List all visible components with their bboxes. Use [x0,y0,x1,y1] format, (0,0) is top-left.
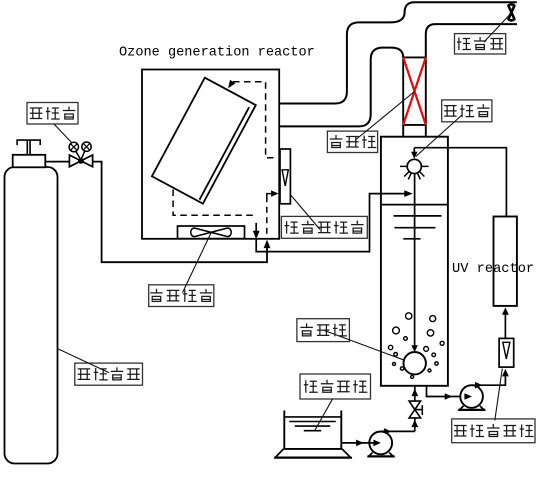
water surface lines [381,204,448,206]
water distributor feed with down arrow [413,148,415,152]
leader line 染料废水 [315,399,333,430]
label box 减压阀 (pressure reducing valve) [27,103,78,125]
leader line 减压阀 [54,124,72,143]
leader line 活性炭 [356,92,415,140]
cylinder valve stem [27,140,30,155]
arrow ozone out of box [253,231,260,240]
pipe: cylinder neck to valve [45,161,70,163]
UV reactor body [494,217,517,306]
arrow ozone into column [404,190,413,197]
tank base [276,449,351,457]
oxygen to rotameter arrow [267,194,273,198]
arrow pump2 outlet [475,382,483,389]
rotameter (ozone) body [280,149,290,204]
svg-text:UV reactor: UV reactor [452,262,534,277]
label box 转子流量计 lower (rotameter) [452,419,535,443]
label box 活性炭 (activated carbon) [327,131,377,152]
label box 氧气钢瓶 (oxygen cylinder) [75,363,143,385]
arrow up into column [411,389,418,397]
label box 排风扇 (exhaust fan) [455,34,506,54]
leader line 排风扇 [484,14,511,42]
water distributor [407,159,421,173]
pipe rotameter to UV reactor [504,314,506,339]
rotameter float triangle [503,342,510,359]
leader line 转子流量计 upper [290,195,320,230]
label box 布水器 (water distributor) [442,100,492,122]
arrow up into rotameter [502,369,509,377]
activated carbon box [403,57,426,136]
leader line 转子流量计 lower [495,369,503,421]
oxygen pipe: valve to ozone box [93,162,267,263]
cylinder neck [13,155,46,168]
ozone outlet line with down arrow [255,223,257,232]
pump 2 [460,385,483,408]
exhaust fan symbol [508,4,514,20]
needle valve (two triangles) [409,401,421,418]
bubbles [406,313,412,319]
rotameter (recirculation) body [499,338,514,367]
arrow oxygen into ozone box [264,240,271,249]
rotameter float triangle [282,170,288,186]
gauge right (circle with X) [82,142,91,151]
pipe: activated carbon to exhaust fan [426,24,517,57]
pump2 outlet pipe [472,375,506,385]
aeration head [404,352,426,374]
gauge stems [76,151,85,159]
gauge left (circle with X) [69,142,78,151]
tank water surface lines [284,416,341,418]
cooling fan housing [178,226,245,239]
leader line 氧气钢瓶 [57,349,109,373]
pump1 base [369,453,394,457]
label box 转子流量计 upper (rotameter) [281,216,367,238]
pump1 inlet with arrows [341,442,378,444]
svg-text:Ozone generation reactor: Ozone generation reactor [119,46,315,61]
tilted ozone generator tube [152,78,256,204]
dashed line: oxygen riser inside box [266,198,268,234]
dye wastewater tank [284,411,341,449]
pipe: box to activated carbon (lower) [279,48,403,127]
column center pipe with down arrow [414,174,416,347]
main reaction column [381,137,448,386]
arrow up below valve [411,420,418,428]
cylinder valve handle [17,140,40,145]
arrow into tube [228,80,235,88]
dashed line: rotameter to tube with arrow [233,82,278,158]
distributor spokes [400,166,429,179]
label box 曝气头 (aeration head) [297,319,350,342]
pipe: box to exhaust fan (upper) [279,2,517,103]
oxygen cylinder body [5,167,58,464]
label box 染料废水 (dye wastewater) [300,374,371,399]
activated carbon red X [403,57,426,125]
leader line 曝气头 [325,331,405,361]
cooling fan propeller [191,228,232,237]
pressure reducing valve bowtie [69,155,92,167]
pump2 internal arrow [464,393,472,400]
dashed line: tube outlet down and right [173,190,255,216]
leader line 冷却风扇 [183,234,211,293]
tube inner wall line [200,107,250,200]
label box 冷却风扇 (cooling fan) [149,285,214,307]
arrow pump1 outlet [384,428,392,435]
pump1 outlet pipe [381,430,415,432]
pipe column to pump2 [427,386,460,397]
arrow into pump2 [445,393,453,400]
ozone generation reactor box [142,70,279,239]
leader line 布水器 [416,115,462,157]
arrow up into UV reactor [502,307,509,315]
pump 1 [369,432,392,455]
recirculation pipe to UV reactor [414,148,506,217]
drain/feed vertical with valve [414,386,416,432]
pump2 base [460,406,485,410]
valve handle [415,405,423,415]
